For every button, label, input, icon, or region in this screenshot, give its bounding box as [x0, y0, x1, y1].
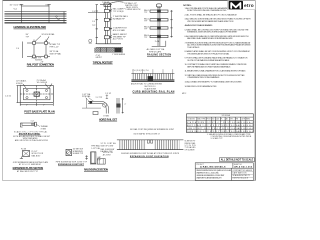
rail line 5 [5, 20, 67, 22]
rail line 1 [5, 11, 67, 13]
leader lines [86, 98, 94, 102]
svg-text:SHEET NO: SHEET NO [234, 164, 243, 166]
post 1 [33, 40, 35, 59]
bottom rail [27, 56, 50, 58]
svg-text:3" MIN: 3" MIN [41, 128, 47, 130]
svg-text:ALL POSTS: ALL POSTS [113, 38, 124, 41]
svg-text:13. ALL DETAILS SHOWN APPLY TO: 13. ALL DETAILS SHOWN APPLY TO STATION A… [185, 81, 243, 84]
post blob [148, 76, 153, 80]
center line [158, 6, 160, 46]
row line B [187, 126, 254, 128]
firm lines [196, 169, 231, 180]
svg-text:PL: PL [221, 119, 223, 121]
pipe horizontal [88, 101, 101, 103]
sleeve square [66, 149, 72, 155]
bolt hole 2 [45, 89, 47, 91]
svg-text:etro: etro [244, 3, 254, 9]
logo frame [228, 1, 256, 10]
title block frame [195, 163, 253, 181]
clamp B [45, 42, 48, 45]
svg-text:MEZZ STAIR 1-1/2 STD 4 1" 3/8: MEZZ STAIR 1-1/2 STD 4 1" 3/8 1/2 6-0 GA… [187, 124, 253, 127]
svg-text:GROUT: GROUT [96, 57, 103, 59]
post 2 [45, 40, 47, 59]
svg-text:LGTH: LGTH [241, 119, 245, 121]
foot bracket [93, 112, 98, 115]
band bottom line [117, 149, 183, 151]
svg-text:11. SEE ARCHITECTURAL DRAWINGS: 11. SEE ARCHITECTURAL DRAWINGS FOR LOCAT… [185, 70, 247, 73]
top vertical divider [232, 163, 234, 168]
svg-text:PROJECT: PROJECT [196, 164, 203, 166]
svg-text:1/2 IN DIA: 1/2 IN DIA [222, 114, 231, 117]
svg-text:1" NON SHRINK: 1" NON SHRINK [112, 54, 126, 56]
svg-text:DWG NO SD-101 B: DWG NO SD-101 B [233, 178, 249, 180]
clamp square [23, 151, 30, 157]
dim ticks [133, 69, 173, 73]
svg-text:1'-0: 1'-0 [92, 21, 95, 23]
svg-text:ALL DETAILS NOT TO SCALE: ALL DETAILS NOT TO SCALE [221, 159, 254, 162]
svg-text:AT RAIL MIDPOINT TYP: AT RAIL MIDPOINT TYP [17, 170, 39, 173]
leader 2 [46, 37, 49, 42]
svg-text:6" MIN: 6" MIN [103, 115, 109, 117]
svg-text:PIPE SLEEVE AT EXP JOINT TYP: PIPE SLEEVE AT EXP JOINT TYP [56, 161, 88, 164]
svg-text:1-1/2" DIA: 1-1/2" DIA [91, 147, 100, 150]
leader to text [37, 125, 41, 127]
pipe vertical [106, 109, 108, 114]
svg-text:3/4 IN GAP AT STRUCTURE JT: 3/4 IN GAP AT STRUCTURE JT [133, 133, 160, 136]
bolt circle [89, 101, 92, 104]
bolt threads [32, 123, 34, 125]
svg-text:WASH METRO AREA TRANSIT AUTH: WASH METRO AREA TRANSIT AUTH [196, 177, 222, 180]
svg-text:SLOPE OF THE WALKING SURFACE A: SLOPE OF THE WALKING SURFACE AS APPLICAB… [187, 59, 230, 62]
rail bar 1 [150, 10, 168, 12]
svg-text:RAIL BOLT: RAIL BOLT [32, 154, 42, 157]
top line [131, 73, 174, 75]
table frame [187, 114, 254, 133]
svg-text:AR-4 SD-1.013: AR-4 SD-1.013 [234, 166, 253, 169]
svg-text:2'-0 | 3'-0 | 3'-0 | 2'-0: 2'-0 | 3'-0 | 3'-0 | 2'-0 [133, 70, 149, 72]
hatch [131, 74, 174, 80]
svg-text:4 REQD: 4 REQD [16, 83, 23, 85]
svg-text:BEFORE FABRICATION OF ANY RAIL: BEFORE FABRICATION OF ANY RAILING MATERI… [187, 65, 231, 68]
svg-text:A RAILING DETAILS: A RAILING DETAILS [200, 166, 226, 169]
svg-text:SCALE AS NOTED TY: SCALE AS NOTED TY [233, 174, 251, 177]
bolt hole 3 [26, 97, 28, 99]
subheader line [187, 120, 254, 122]
svg-text:ZINC RICH PAINT AFTER FABRICAT: ZINC RICH PAINT AFTER FABRICATION AND ER… [187, 20, 234, 23]
left dim line [17, 86, 19, 103]
right block lines [233, 169, 253, 180]
band top line [117, 139, 183, 141]
cap line [90, 163, 97, 165]
base plate [98, 43, 122, 45]
foot [20, 157, 23, 159]
elbow flange circle [103, 103, 107, 107]
column headers [187, 118, 250, 121]
svg-text:SIDE OF JOINT: SIDE OF JOINT [101, 145, 115, 147]
row line A [187, 123, 254, 125]
svg-text:THICKNESS AS SHOWN ON TYPICAL: THICKNESS AS SHOWN ON TYPICAL POST DETAI… [187, 52, 230, 55]
logo M glyph [231, 3, 240, 8]
top tick line [100, 4, 112, 6]
svg-text:SLEEVE TYP: SLEEVE TYP [73, 153, 84, 155]
svg-text:1/2" 3'-1/2" 3/4: 1/2" 3'-1/2" 3/4 [10, 5, 22, 7]
post at x21.5 [21, 5, 23, 23]
svg-text:RAIL POST CONNECTION: RAIL POST CONNECTION [27, 63, 54, 67]
svg-text:SIDE OF RAIL: SIDE OF RAIL [50, 52, 62, 55]
dim line top [22, 5, 50, 7]
svg-text:ANCHOR RAIL TO CURB AS SHOWN: ANCHOR RAIL TO CURB AS SHOWN [131, 82, 163, 85]
hatch right group [155, 140, 180, 150]
rail line 2 [5, 13, 67, 15]
svg-text:AT JOINT: AT JOINT [103, 153, 112, 156]
svg-text:AT 6'-0 OC MAX: AT 6'-0 OC MAX [113, 29, 126, 32]
svg-text:1'-0: 1'-0 [92, 11, 95, 13]
top divider [195, 167, 253, 169]
leader 1 [35, 36, 41, 42]
rail bar 4 [150, 35, 168, 37]
svg-text:GENERAL ENGINEERING CONSULTANT: GENERAL ENGINEERING CONSULTANT [196, 174, 225, 177]
svg-text:SPLICE IN RAIL: SPLICE IN RAIL [42, 33, 55, 36]
top cap rail [157, 4, 162, 7]
rail bar 3 [150, 27, 168, 29]
pipe inner [92, 152, 95, 163]
bolt body [22, 123, 35, 125]
nut [35, 122, 37, 126]
data rows [187, 124, 253, 133]
bottom dim line [20, 104, 53, 106]
dim line [106, 95, 108, 99]
clamp D [45, 55, 48, 58]
svg-text:3. SCHED TYP: 3. SCHED TYP [211, 138, 224, 140]
clamp C [33, 55, 36, 58]
svg-text:OTHERWISE NOTED ON THE DRAWING: OTHERWISE NOTED ON THE DRAWINGS [187, 76, 220, 79]
header line [187, 116, 254, 118]
floor line [5, 22, 67, 24]
center lines [36, 86, 38, 103]
right dim line [171, 10, 173, 38]
bolt hook [20, 123, 22, 127]
svg-text:1'-6: 1'-6 [16, 48, 19, 50]
svg-text:POST BASE PLATE PLAN: POST BASE PLATE PLAN [24, 110, 55, 114]
svg-text:IN SECTION 05521 UNLESS OTHERW: IN SECTION 05521 UNLESS OTHERWISE NOTED [187, 10, 227, 12]
joint sleeve [147, 140, 149, 143]
svg-text:2. ALL POSTS SHALL BE SPACED A: 2. ALL POSTS SHALL BE SPACED AT 6 FT 0 I… [185, 13, 237, 16]
top rail [27, 42, 50, 44]
svg-text:AT 40'-0 OC MAXIMUM: AT 40'-0 OC MAXIMUM [19, 163, 41, 166]
post at x49 [48, 5, 50, 23]
leader lines [23, 84, 26, 88]
clamp dark [116, 104, 120, 108]
svg-text:TYP 4 REQD: TYP 4 REQD [113, 11, 125, 13]
svg-text:W/ 4 HOLES: W/ 4 HOLES [37, 82, 48, 84]
splice mini square [97, 159, 105, 165]
grout dark block [115, 48, 122, 52]
svg-text:CURB RAILS 1-1/2 STD 4 1" 3/8: CURB RAILS 1-1/2 STD 4 1" 3/8 1/2 6-0 GA… [187, 130, 253, 133]
logo black box [229, 1, 243, 9]
svg-text:THE DETAILS: THE DETAILS [187, 46, 200, 49]
svg-text:NO RAIL POST REQUIRED AT EXPAN: NO RAIL POST REQUIRED AT EXPANSION JOINT [130, 128, 175, 131]
svg-text:EXPANSION JOINTS SHOWN ON THE: EXPANSION JOINTS SHOWN ON THE DETAILS OF… [187, 31, 238, 34]
svg-text:FIN: FIN [236, 119, 238, 121]
row line C [187, 129, 254, 131]
svg-text:POST: POST [207, 119, 211, 121]
svg-text:LINE STRUCT 1-1/2 STD 4 1" 3/8: LINE STRUCT 1-1/2 STD 4 1" 3/8 1/2 6-0 G… [187, 127, 253, 130]
svg-text:HANDRAIL ELEVATION AND: HANDRAIL ELEVATION AND [14, 25, 47, 29]
concrete hatch [94, 48, 123, 53]
left dim line [96, 5, 98, 44]
lower vertical divider [231, 168, 233, 180]
svg-text:1'-3 1/2: 1'-3 1/2 [105, 93, 111, 95]
side line [122, 98, 124, 114]
clamp 1 [104, 10, 109, 13]
left dim [22, 42, 24, 59]
elbow [101, 101, 109, 109]
svg-text:4. ALL ANCHOR BOLTS SHALL BE G: 4. ALL ANCHOR BOLTS SHALL BE GALVANIZED [185, 24, 214, 27]
svg-text:OF SLEEVE: OF SLEEVE [185, 149, 196, 151]
svg-text:EQ SPACED TYP: EQ SPACED TYP [113, 17, 126, 20]
svg-text:9'-1: 9'-1 [46, 5, 49, 7]
column lines [197, 117, 246, 132]
rail line 3 [5, 15, 67, 17]
svg-text:TYPICAL POST DET: TYPICAL POST DET [93, 60, 113, 64]
clamp 2 [104, 18, 109, 21]
svg-text:MP-2: MP-2 [182, 93, 186, 95]
post lines [105, 5, 107, 44]
svg-text:PIPE RAIL: PIPE RAIL [82, 95, 91, 98]
svg-text:SLEEVED EXPANSION JOINT IN RAI: SLEEVED EXPANSION JOINT IN RAIL AT STRUC… [121, 152, 180, 155]
svg-text:1'-2 TYP: 1'-2 TYP [96, 97, 104, 99]
post lines [117, 98, 119, 114]
svg-text:1'-0 1/2: 1'-0 1/2 [5, 96, 11, 98]
plate outer rect [20, 86, 53, 103]
svg-text:EA RAIL TYP: EA RAIL TYP [101, 150, 114, 153]
svg-text:14. SEE DWG 5-1 FOR GENERAL NO: 14. SEE DWG 5-1 FOR GENERAL NOTES [185, 85, 218, 88]
top cap [104, 3, 110, 6]
hatch left group [119, 140, 145, 150]
svg-text:PIPE 1-1/2": PIPE 1-1/2" [50, 46, 60, 48]
clamp 4 [104, 36, 109, 39]
end ticks [63, 12, 65, 23]
post section center [34, 92, 40, 96]
bolt hole 1 [26, 89, 28, 91]
svg-text:AND GROUTED IN PLACE AS NOTED: AND GROUTED IN PLACE AS NOTED [15, 139, 49, 142]
plate inner rect [24, 88, 51, 100]
splice symbol [56, 16, 58, 18]
anchor bolts [101, 48, 107, 53]
wall line [82, 98, 101, 108]
svg-text:GRIND SMOOTH: GRIND SMOOTH [127, 9, 142, 11]
svg-text:V=1: V=1 [14, 8, 17, 10]
rail bar 2 [150, 19, 168, 21]
svg-text:1'-0": 1'-0" [31, 121, 35, 123]
clamp A [33, 42, 36, 45]
row separators right cell [232, 171, 254, 177]
left bolt [85, 155, 88, 160]
right leaders [109, 9, 112, 11]
base [152, 41, 166, 47]
pipe outer [91, 152, 96, 163]
bolt hole 4 [45, 97, 47, 99]
svg-text:AND FREE OF ALL SHARP EDGES OR: AND FREE OF ALL SHARP EDGES OR BURRS AS … [187, 37, 233, 40]
rail line 4 [5, 17, 67, 19]
bottom band [131, 79, 174, 81]
clamp 3 [104, 27, 109, 30]
